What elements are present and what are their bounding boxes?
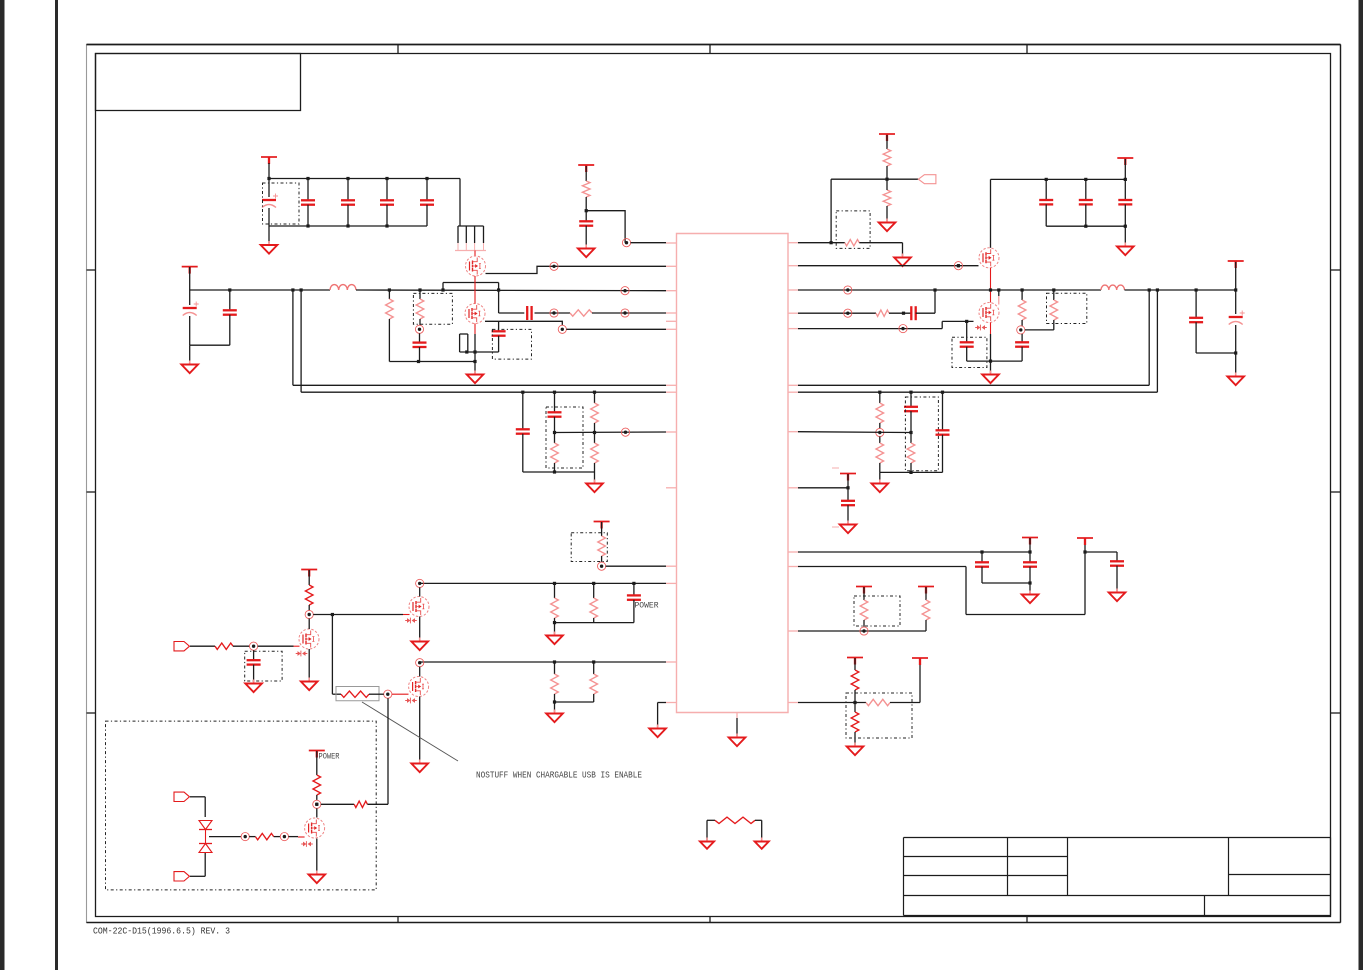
wire bbox=[594, 472, 596, 482]
node marker bbox=[621, 428, 629, 436]
ground bbox=[1227, 373, 1244, 386]
capacitor C25 bbox=[975, 552, 989, 583]
wire net L1 right bbox=[798, 290, 1149, 385]
svg-text:COM-22C-D15(1996.6.5) REV. 3: COM-22C-D15(1996.6.5) REV. 3 bbox=[93, 926, 230, 937]
ground bbox=[879, 219, 896, 232]
resistor R27 bbox=[215, 643, 233, 649]
wire Q1-Q2 gate line bbox=[474, 276, 476, 304]
wire bbox=[886, 166, 888, 179]
wire Q1 source to IC pin bbox=[486, 266, 667, 273]
border zone tick top 1 bbox=[397, 44, 399, 53]
capacitor C2 bbox=[301, 179, 315, 227]
border zone tick bottom 1 bbox=[397, 916, 399, 923]
junction bbox=[331, 613, 334, 616]
node marker bbox=[622, 239, 630, 247]
junction bbox=[1148, 288, 1159, 291]
capacitor C7 bbox=[223, 290, 237, 345]
junction bbox=[909, 471, 912, 474]
resistor R1b bbox=[386, 290, 394, 362]
power symbol VCC3 bbox=[578, 165, 594, 172]
connector OUT1 bbox=[918, 175, 936, 184]
wire bbox=[601, 522, 603, 536]
border zone tick top 3 bbox=[1026, 44, 1028, 53]
power symbol VCC5 bbox=[1117, 158, 1133, 165]
wire from IC bbox=[798, 242, 845, 244]
wire bbox=[1085, 551, 1117, 553]
power symbol VCC16 bbox=[309, 751, 325, 758]
wire bbox=[555, 622, 634, 624]
power symbol VCC9 bbox=[1077, 538, 1093, 545]
crystal X1 leads bbox=[460, 334, 499, 352]
junction bbox=[1028, 581, 1031, 584]
zener D4 bbox=[405, 698, 417, 704]
wire loop vertical A bbox=[292, 290, 294, 385]
power symbol VCC13 bbox=[912, 658, 928, 665]
wire net L2 right bbox=[798, 290, 1157, 392]
junction bbox=[933, 288, 1237, 291]
junction bbox=[1234, 351, 1237, 354]
capacitor C9 bbox=[527, 306, 531, 320]
node marker bbox=[598, 562, 606, 570]
power symbol VCC1 bbox=[261, 157, 277, 164]
wire rail 583 bbox=[420, 582, 666, 584]
power symbol VCC12 bbox=[847, 658, 863, 665]
wire Q2 drain stub bbox=[474, 324, 476, 353]
left black margin bar bbox=[0, 0, 5, 970]
capacitor C29 bbox=[247, 650, 261, 682]
capacitor C5 bbox=[420, 179, 434, 227]
resistor R14 bbox=[876, 437, 884, 473]
resistor R29 bbox=[313, 775, 321, 795]
node marker bbox=[250, 642, 258, 650]
wire Q6 source bbox=[419, 697, 421, 763]
title box top-left bbox=[96, 54, 301, 111]
resistor R4 bbox=[883, 149, 891, 166]
node marker bbox=[558, 325, 566, 333]
wire bbox=[889, 312, 911, 314]
junction bbox=[553, 700, 556, 703]
ground bbox=[578, 245, 595, 258]
transistor Q6 bbox=[409, 677, 429, 697]
dotted box R19/R20 bbox=[846, 693, 912, 738]
node marker bbox=[860, 627, 868, 635]
capacitor C22 bbox=[904, 392, 918, 432]
node marker bbox=[415, 325, 423, 333]
transistor Q4 bbox=[979, 303, 999, 323]
wire bbox=[190, 875, 205, 877]
title block table bbox=[904, 838, 1331, 916]
zener D5 bbox=[301, 841, 313, 847]
wire rail 662 bbox=[420, 661, 666, 663]
IC U1 body bbox=[677, 234, 789, 713]
wire Q6 drain bbox=[419, 667, 421, 677]
resistor R24 bbox=[551, 662, 559, 702]
NOSTUFF note bbox=[476, 771, 642, 781]
resistor R26 bbox=[305, 585, 313, 605]
ground bbox=[894, 254, 911, 267]
wire bbox=[631, 242, 667, 244]
connector J1 4-prong bbox=[455, 226, 486, 251]
wire IC bottom pin bbox=[736, 718, 738, 736]
resistor R22 bbox=[551, 583, 559, 622]
power symbol VCC4 bbox=[879, 134, 895, 141]
module dotted box bbox=[106, 721, 377, 890]
capacitor C20 bbox=[516, 392, 530, 472]
resistor R31 bbox=[255, 833, 273, 839]
wire bbox=[879, 472, 881, 482]
wire IC pin 329 to Q4 gate bbox=[798, 321, 974, 328]
ground bbox=[840, 521, 857, 534]
zener D2 bbox=[405, 618, 417, 624]
wire bbox=[190, 645, 215, 647]
ground bbox=[982, 371, 999, 384]
ground bbox=[261, 241, 278, 254]
wire row 552 bbox=[798, 551, 1030, 553]
capacitor C12 bbox=[1039, 179, 1053, 226]
wire row 631 bbox=[798, 630, 926, 632]
wire bbox=[859, 243, 902, 256]
resistor R7 bbox=[876, 310, 889, 316]
border zone tick right 1 bbox=[1330, 269, 1340, 271]
dotted box R16 bbox=[854, 596, 900, 626]
junction bbox=[553, 470, 556, 473]
wire bbox=[316, 751, 318, 775]
dotted box C1 bbox=[263, 183, 300, 224]
wire main bus right end bbox=[1125, 289, 1236, 291]
resistor R2 bbox=[570, 310, 592, 316]
svg-text:POWER: POWER bbox=[635, 602, 659, 611]
junction bbox=[989, 360, 992, 363]
wire bbox=[847, 474, 849, 488]
ground bbox=[729, 734, 746, 747]
wire bottom rail right bank bbox=[1046, 225, 1125, 227]
wire bbox=[288, 836, 304, 838]
wire Q5 source bbox=[419, 617, 421, 641]
border zone tick right 3 bbox=[1330, 712, 1340, 714]
ground bbox=[309, 871, 326, 884]
wire gate row bbox=[313, 614, 409, 616]
border zone tick left 1 bbox=[87, 269, 96, 271]
resistor R9 bbox=[1050, 290, 1058, 330]
resistor R30 bbox=[354, 801, 367, 807]
resistor R19 bbox=[866, 699, 890, 705]
POWER label 2 bbox=[319, 753, 340, 762]
wire main bus left bbox=[190, 289, 330, 291]
resistor R15 bbox=[907, 433, 915, 473]
ground bbox=[649, 725, 666, 738]
ground bbox=[411, 760, 428, 773]
junction bbox=[521, 391, 596, 394]
border zone tick bottom 3 bbox=[1026, 916, 1028, 923]
wire top rail cap bank bbox=[269, 178, 460, 180]
resistor R32 bbox=[715, 817, 755, 823]
capacitor C1 (electrolytic) bbox=[262, 179, 278, 227]
resistor R28 bbox=[341, 691, 369, 697]
wire bbox=[268, 226, 270, 243]
junction bbox=[418, 288, 500, 291]
node marker bbox=[280, 833, 288, 841]
wire bbox=[1235, 262, 1237, 290]
ground bbox=[847, 743, 864, 756]
capacitor C23 bbox=[936, 392, 950, 472]
dotted box cluster R bbox=[905, 397, 938, 471]
resistor R23 bbox=[590, 583, 598, 622]
wire Q7 source bbox=[308, 649, 310, 680]
capacitor C19 (electrolytic) bbox=[1229, 290, 1245, 353]
wire bbox=[585, 166, 587, 181]
wire to IC bbox=[566, 328, 666, 330]
wire mid row from IC bbox=[798, 431, 911, 434]
wire gate link bbox=[474, 251, 476, 257]
capacitor C6 (electrolytic) bbox=[183, 290, 199, 345]
junction bbox=[465, 350, 476, 353]
junction bbox=[388, 288, 420, 363]
node marker bbox=[844, 286, 852, 294]
power symbol VCC7 bbox=[840, 474, 856, 481]
border zone tick left 3 bbox=[87, 712, 96, 714]
junctions cap bank bbox=[267, 177, 428, 228]
wire bbox=[707, 820, 715, 840]
ground bbox=[546, 632, 563, 645]
resistor R16 bbox=[860, 587, 868, 627]
wire Q2 source bbox=[485, 321, 562, 325]
svg-text:NOSTUFF WHEN CHARGABLE USB IS: NOSTUFF WHEN CHARGABLE USB IS ENABLE bbox=[476, 771, 642, 781]
dotted box cluster L bbox=[546, 407, 583, 468]
junction bbox=[909, 431, 912, 434]
left fold line bbox=[55, 0, 58, 970]
resistor R5 bbox=[883, 190, 891, 206]
wire vertical bbox=[830, 179, 832, 243]
capacitor C14 bbox=[1118, 179, 1132, 226]
wire bbox=[755, 820, 762, 840]
junction bbox=[957, 264, 960, 267]
node marker bbox=[876, 428, 884, 436]
wire bbox=[1025, 329, 1054, 331]
resistor R25 bbox=[590, 662, 598, 702]
capacitor C28 bbox=[627, 583, 641, 622]
inductor L2 bbox=[1101, 285, 1125, 290]
POWER label bbox=[635, 602, 659, 611]
wire IC to Q3 gate bbox=[798, 265, 979, 267]
junction bbox=[1083, 550, 1086, 553]
transistor Q7 bbox=[299, 629, 319, 649]
wire IC to RC bbox=[798, 312, 876, 314]
wire bbox=[554, 702, 556, 712]
wire bbox=[321, 803, 354, 805]
ground bbox=[411, 638, 428, 651]
resistor R3 bbox=[582, 181, 590, 197]
junction bbox=[980, 550, 1031, 553]
ground bbox=[1117, 243, 1134, 256]
wire bbox=[916, 290, 935, 313]
capacitor C27 bbox=[1110, 552, 1124, 591]
node marker bbox=[416, 579, 424, 587]
resistor R20 bbox=[851, 703, 859, 746]
border zone tick right 2 bbox=[1330, 491, 1340, 493]
wire bbox=[585, 197, 587, 221]
transistor Q1 bbox=[466, 256, 486, 276]
connector IN1 bbox=[174, 642, 190, 651]
ground bbox=[245, 680, 262, 693]
wire bbox=[555, 701, 594, 703]
IC U1 pin stubs bbox=[666, 243, 799, 718]
wire to IC pin bbox=[586, 211, 625, 243]
wire bbox=[258, 645, 300, 647]
wire loop vertical B bbox=[300, 290, 302, 392]
wire diode tap bbox=[209, 836, 241, 838]
junction bbox=[830, 241, 833, 244]
junction bbox=[902, 312, 905, 315]
wire bbox=[189, 345, 191, 363]
ground bbox=[586, 480, 603, 493]
wire bbox=[1029, 583, 1031, 593]
junction bbox=[997, 288, 1000, 291]
wire to cap C9 bbox=[499, 312, 525, 314]
resistor R10 bbox=[591, 392, 599, 432]
power symbol VCC14 bbox=[594, 522, 610, 529]
ground bbox=[467, 371, 484, 384]
wire bbox=[498, 290, 500, 313]
ground bbox=[1109, 589, 1126, 602]
transistor Q3 bbox=[979, 248, 999, 268]
wire bbox=[459, 179, 461, 227]
IC U1 nc marks bbox=[832, 468, 839, 527]
node marker bbox=[1017, 326, 1025, 334]
transistor Q5 bbox=[409, 597, 429, 617]
wire bbox=[233, 645, 250, 647]
resistor R12 bbox=[591, 433, 599, 473]
junction bbox=[965, 320, 968, 323]
wire Q5/Q6 gate feed bbox=[332, 615, 341, 695]
diode pair D6 bbox=[199, 821, 212, 853]
wire Q8 drain bbox=[316, 808, 318, 817]
capacitor C13 bbox=[1079, 179, 1093, 226]
wire bbox=[1029, 538, 1031, 552]
junction bbox=[885, 178, 888, 181]
wire bbox=[886, 179, 888, 221]
wire Q4 second drain lead bbox=[998, 290, 1000, 305]
node marker bbox=[844, 309, 852, 317]
wire main bus right bbox=[798, 289, 1101, 291]
junction bbox=[553, 431, 596, 434]
wire bbox=[606, 565, 666, 567]
grey box NOSTUFF resistor bbox=[336, 687, 379, 701]
power symbol VCC15 bbox=[301, 570, 317, 577]
capacitor C26 bbox=[1023, 552, 1037, 583]
wire top rail right bank bbox=[991, 178, 1126, 180]
wire Q4 source down bbox=[990, 323, 992, 374]
wire bbox=[554, 623, 556, 634]
node marker bbox=[384, 690, 392, 698]
wire main bus to IC bbox=[356, 289, 666, 292]
junction bbox=[585, 209, 588, 212]
wire bbox=[523, 471, 595, 473]
dotted box R9 bbox=[1047, 293, 1087, 323]
wire bbox=[308, 605, 310, 611]
wire row 703 bbox=[798, 702, 866, 704]
wire bbox=[890, 659, 920, 703]
ground bbox=[700, 838, 714, 849]
zener D3 bbox=[296, 651, 308, 657]
dotted box R1 bbox=[413, 293, 452, 324]
connector IN3 bbox=[174, 872, 190, 881]
junction bbox=[315, 803, 318, 806]
wire bbox=[967, 360, 1022, 362]
wire bbox=[535, 312, 571, 314]
wire row 567 bbox=[798, 539, 1085, 615]
node marker bbox=[550, 262, 558, 270]
dotted box R6 bbox=[836, 211, 870, 249]
power symbol VCC8 bbox=[1022, 538, 1038, 545]
wire bottom rail cap bank bbox=[269, 225, 427, 227]
connector IN2 bbox=[174, 792, 190, 801]
wire bbox=[886, 135, 888, 149]
ground bbox=[1022, 591, 1039, 604]
node marker bbox=[313, 800, 321, 808]
capacitor C15 bbox=[911, 306, 915, 320]
transistor Q8 bbox=[305, 818, 325, 838]
resistor R1 bbox=[416, 290, 424, 325]
junction bbox=[878, 391, 944, 394]
power symbol VCC2 bbox=[182, 267, 198, 274]
power symbol VCC10 bbox=[856, 587, 872, 594]
wire bbox=[880, 471, 943, 473]
wire bbox=[601, 556, 603, 562]
callout line bbox=[362, 702, 458, 761]
node marker bbox=[621, 287, 629, 295]
node marker bbox=[416, 659, 424, 667]
transistor Q2 bbox=[465, 304, 485, 324]
wire bbox=[367, 698, 388, 804]
wire bbox=[189, 267, 191, 290]
wire bbox=[268, 163, 270, 179]
capacitor C3 bbox=[341, 179, 355, 227]
wire Q7 drain bbox=[308, 619, 310, 630]
wire bbox=[1235, 353, 1237, 375]
node marker bbox=[621, 309, 629, 317]
node marker bbox=[550, 309, 558, 317]
wire mid row to IC bbox=[555, 431, 667, 434]
wire bbox=[1124, 159, 1126, 179]
capacitor C10 bbox=[492, 321, 506, 352]
capacitor C4 bbox=[380, 179, 394, 227]
resistor R6 bbox=[845, 240, 860, 246]
wire bbox=[190, 797, 205, 817]
node marker bbox=[899, 325, 907, 333]
wire bbox=[190, 344, 230, 346]
wire Q3-Q4 link bbox=[990, 268, 992, 303]
wire bbox=[1196, 352, 1236, 354]
ground bbox=[546, 710, 563, 723]
capacitor C18 bbox=[1189, 290, 1203, 353]
wire node row bbox=[831, 178, 918, 180]
capacitor C21 bbox=[548, 392, 562, 432]
wire bbox=[316, 795, 318, 800]
ground bbox=[755, 838, 769, 849]
wire bbox=[474, 352, 476, 373]
zener D1 bbox=[975, 325, 987, 331]
junction bbox=[473, 360, 476, 363]
capacitor C16 bbox=[960, 321, 974, 361]
capacitor C17 bbox=[1015, 334, 1029, 361]
junction bbox=[846, 486, 849, 489]
svg-text:POWER: POWER bbox=[319, 753, 340, 762]
border zone tick bottom 2 bbox=[709, 916, 711, 923]
dotted box C10 bbox=[492, 329, 531, 359]
inductor L1 bbox=[330, 285, 356, 290]
border zone tick left 2 bbox=[87, 491, 96, 493]
resistor R18 bbox=[851, 658, 859, 703]
